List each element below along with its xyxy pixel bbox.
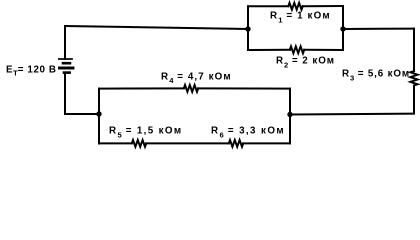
- resistor R2: [290, 46, 304, 53]
- svg-text:R6 = 3,3 кОм: R6 = 3,3 кОм: [211, 126, 285, 140]
- wire right vertical above R3: [413, 29, 415, 72]
- svg-text:ET= 120 В: ET= 120 В: [6, 65, 57, 78]
- resistor R1: [288, 3, 302, 10]
- wire left vertical of R4/R5R6 box: [98, 89, 100, 144]
- wire right vertical below R3: [413, 86, 415, 114]
- battery E_T: [59, 59, 73, 73]
- wire left vertical of R1/R2 box: [247, 6, 249, 50]
- wire top horizontal to node A: [65, 26, 248, 29]
- wire bottom branch right stub (from R6): [243, 142, 290, 144]
- resistor R4: [184, 85, 198, 92]
- wire bottom branch left stub (to R2): [248, 49, 290, 51]
- wire node B to top right corner: [343, 28, 414, 30]
- svg-text:R5 = 1,5 кОм: R5 = 1,5 кОм: [109, 126, 182, 140]
- resistor R5: [132, 140, 146, 147]
- resistor R3: [410, 71, 417, 85]
- svg-text:R4 = 4,7 кОм: R4 = 4,7 кОм: [161, 71, 232, 85]
- svg-text:R3 = 5,6 кОм: R3 = 5,6 кОм: [342, 69, 410, 83]
- wire battery top vertical: [64, 26, 66, 59]
- svg-text:R2 = 2 кОм: R2 = 2 кОм: [276, 56, 335, 70]
- wire bottom branch right stub (from R2): [304, 49, 343, 51]
- node D: [287, 112, 292, 117]
- resistor R6: [229, 140, 243, 147]
- wire right vertical of R4/R5R6 box: [289, 89, 291, 144]
- wire top branch right stub (from R4): [198, 87, 290, 89]
- wire top branch right stub (from R1): [303, 5, 343, 7]
- wire node D to R3 bottom: [290, 113, 414, 116]
- wire right vertical of R1/R2 box: [342, 6, 344, 50]
- node C: [96, 111, 101, 116]
- wire between R5 and R6: [146, 142, 229, 144]
- node A: [245, 26, 250, 31]
- svg-text:R1 = 1 кОм: R1 = 1 кОм: [270, 11, 331, 25]
- wire top branch left stub (to R4): [99, 87, 184, 89]
- wire battery bottom down and right to node C: [65, 74, 99, 114]
- wire top branch left stub (to R1): [248, 5, 288, 7]
- wire bottom branch left stub (to R5): [99, 142, 132, 144]
- node B: [340, 26, 345, 31]
